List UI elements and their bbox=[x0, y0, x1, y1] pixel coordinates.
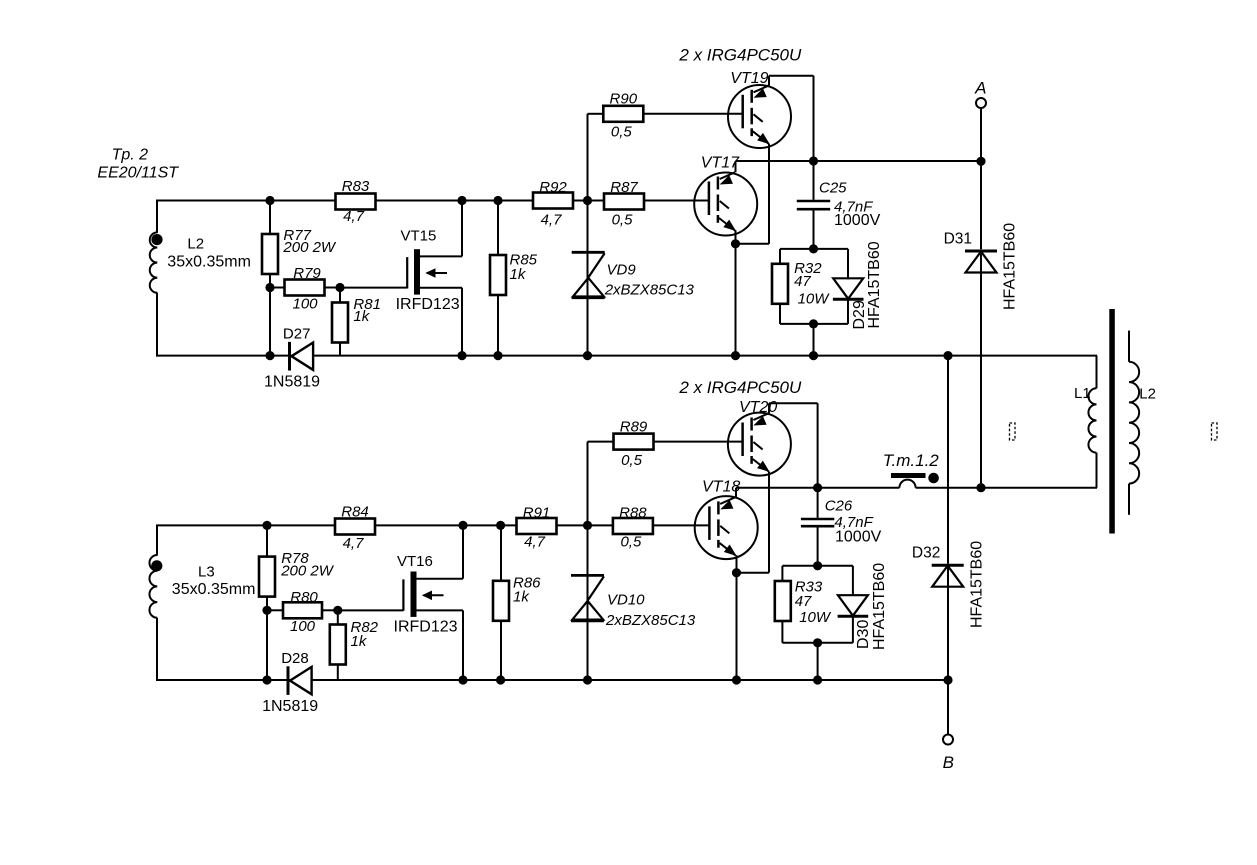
svg-text:T.m.1.2: T.m.1.2 bbox=[883, 451, 940, 470]
svg-text:1000V: 1000V bbox=[835, 528, 882, 545]
svg-text:EE20/11ST: EE20/11ST bbox=[97, 165, 179, 182]
svg-text:4,7: 4,7 bbox=[541, 211, 563, 228]
svg-text:R79: R79 bbox=[293, 265, 321, 282]
svg-text:D32: D32 bbox=[912, 545, 940, 562]
svg-text:Tp. 2: Tp. 2 bbox=[112, 146, 149, 163]
svg-text:35x0.35mm: 35x0.35mm bbox=[167, 254, 251, 271]
svg-text:R89: R89 bbox=[620, 419, 648, 436]
svg-text:VT16: VT16 bbox=[397, 553, 433, 570]
svg-text:200 2W: 200 2W bbox=[282, 239, 337, 256]
svg-text:200 2W: 200 2W bbox=[280, 562, 335, 579]
svg-text:100: 100 bbox=[290, 618, 316, 635]
svg-text:B: B bbox=[943, 753, 954, 772]
svg-text:R80: R80 bbox=[290, 589, 318, 606]
svg-text:VT15: VT15 bbox=[401, 228, 437, 245]
svg-text:D31: D31 bbox=[944, 230, 972, 247]
svg-text:10W: 10W bbox=[799, 609, 832, 626]
svg-text:4,7: 4,7 bbox=[343, 535, 365, 552]
svg-text:2 x IRG4PC50U: 2 x IRG4PC50U bbox=[678, 46, 802, 65]
svg-text:4,7: 4,7 bbox=[343, 208, 365, 225]
svg-text:0,5: 0,5 bbox=[612, 211, 634, 228]
svg-text:IRFD123: IRFD123 bbox=[396, 296, 460, 313]
svg-text:HFA15TB60: HFA15TB60 bbox=[866, 241, 883, 328]
svg-text:0,5: 0,5 bbox=[611, 124, 633, 141]
svg-text:L3: L3 bbox=[198, 563, 215, 580]
svg-text:4,7: 4,7 bbox=[524, 533, 546, 550]
svg-text:2xBZX85C13: 2xBZX85C13 bbox=[604, 282, 695, 299]
svg-text:R83: R83 bbox=[342, 178, 370, 195]
svg-text:C25: C25 bbox=[819, 179, 847, 196]
svg-text:0,5: 0,5 bbox=[620, 534, 642, 551]
svg-text:R90: R90 bbox=[610, 90, 638, 107]
svg-text:1000V: 1000V bbox=[834, 212, 881, 229]
svg-text:VT20: VT20 bbox=[739, 399, 777, 416]
svg-text:2xBZX85C13: 2xBZX85C13 bbox=[605, 612, 696, 629]
svg-text:1k: 1k bbox=[513, 589, 530, 606]
svg-text:1k: 1k bbox=[510, 266, 527, 283]
svg-text:R91: R91 bbox=[523, 505, 551, 522]
svg-text:R92: R92 bbox=[539, 179, 567, 196]
svg-text:0,5: 0,5 bbox=[621, 452, 643, 469]
svg-text:A: A bbox=[974, 79, 986, 98]
svg-text:HFA15TB60: HFA15TB60 bbox=[871, 563, 888, 650]
svg-text:1k: 1k bbox=[351, 633, 368, 650]
svg-text:C26: C26 bbox=[825, 498, 853, 515]
svg-text:D30: D30 bbox=[855, 620, 872, 649]
svg-text:HFA15TB60: HFA15TB60 bbox=[969, 541, 986, 628]
svg-text:D28: D28 bbox=[281, 650, 309, 667]
svg-text:1N5819: 1N5819 bbox=[262, 698, 318, 715]
svg-text:D27: D27 bbox=[283, 326, 311, 343]
svg-text:L1: L1 bbox=[1074, 385, 1091, 402]
svg-text:35x0.35mm: 35x0.35mm bbox=[172, 581, 256, 598]
svg-text:IRFD123: IRFD123 bbox=[394, 619, 458, 636]
svg-text:L2: L2 bbox=[1139, 386, 1156, 403]
svg-text:HFA15TB60: HFA15TB60 bbox=[1002, 223, 1019, 310]
svg-text:10W: 10W bbox=[798, 290, 831, 307]
svg-text:VT18: VT18 bbox=[702, 479, 740, 496]
svg-text:R88: R88 bbox=[619, 505, 647, 522]
svg-text:VT19: VT19 bbox=[730, 70, 768, 87]
svg-text:VT17: VT17 bbox=[701, 154, 740, 171]
svg-text:VD9: VD9 bbox=[607, 262, 637, 279]
svg-text:VD10: VD10 bbox=[607, 592, 645, 609]
svg-text:47: 47 bbox=[795, 593, 812, 610]
svg-text:47: 47 bbox=[794, 273, 811, 290]
svg-text:L2: L2 bbox=[187, 236, 204, 253]
svg-text:1N5819: 1N5819 bbox=[264, 374, 320, 391]
svg-text:R84: R84 bbox=[341, 503, 369, 520]
svg-text:R87: R87 bbox=[610, 179, 638, 196]
svg-text:1k: 1k bbox=[353, 308, 370, 325]
svg-text:100: 100 bbox=[292, 295, 318, 312]
svg-text:2 x IRG4PC50U: 2 x IRG4PC50U bbox=[678, 378, 802, 397]
